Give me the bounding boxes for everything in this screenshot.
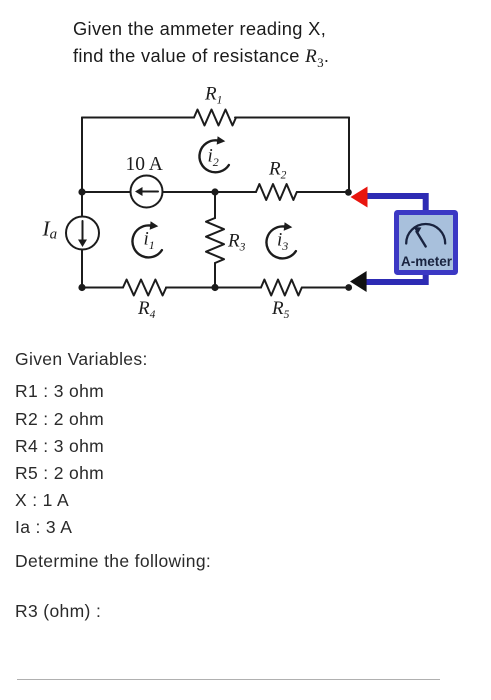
given variables text block [15, 349, 148, 370]
svg-text:A-meter: A-meter [401, 254, 453, 269]
ammeter A-meter box [397, 213, 456, 273]
loop i1 [132, 221, 161, 257]
node: left bottom junction [78, 284, 85, 291]
resistor R4 [123, 280, 166, 296]
resistor R2 [256, 184, 297, 200]
ammeter blue lead bottom [365, 275, 426, 282]
svg-text:R4: R4 [137, 298, 156, 321]
wire: top-left horizontal segment [82, 117, 194, 119]
current source Ia [66, 217, 99, 250]
wire: R3 bottom stub [214, 263, 216, 288]
svg-text:i2: i2 [208, 146, 219, 170]
wire: R3 top stub [214, 192, 216, 218]
node: right middle junction [345, 189, 352, 196]
resistor R3 [206, 218, 224, 263]
wire: bottom right segment [302, 287, 349, 289]
ammeter blue lead top [364, 196, 426, 210]
loop i3 [266, 222, 295, 258]
wire: middle left segment [82, 191, 131, 193]
node: left middle junction [78, 188, 85, 195]
node: right bottom junction [345, 284, 352, 291]
bottom rule [17, 679, 440, 680]
svg-text:10 A: 10 A [126, 154, 163, 175]
svg-text:R5: R5 [271, 298, 290, 321]
node: R3 top junction [211, 188, 218, 195]
wire: bottom left segment [82, 287, 123, 289]
svg-text:i1: i1 [144, 229, 155, 253]
svg-text:R1: R1 [204, 84, 222, 107]
current source 10A [131, 176, 163, 208]
wire: left rail lower [81, 250, 83, 288]
red probe arrow [351, 187, 368, 208]
loop i2 [199, 136, 228, 172]
wire: right rail [348, 118, 350, 191]
wire: bottom middle segment [166, 287, 261, 289]
title text [73, 16, 329, 76]
wire: left rail upper [81, 118, 83, 217]
svg-text:i3: i3 [277, 230, 288, 254]
svg-text:R2: R2 [268, 159, 287, 182]
resistor R1 [194, 110, 236, 126]
resistor R5 [261, 280, 302, 296]
svg-text:R3: R3 [227, 231, 246, 254]
wire: top-right horizontal segment [235, 117, 349, 119]
node: R3 bottom junction [211, 284, 218, 291]
svg-text:Ia: Ia [42, 217, 58, 243]
wire: middle right segment [297, 191, 349, 193]
wire: middle center segment [163, 191, 257, 193]
black probe arrow [350, 271, 367, 292]
